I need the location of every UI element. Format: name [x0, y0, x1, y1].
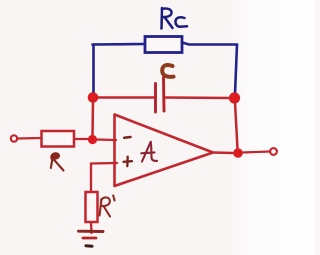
label A [141, 142, 157, 162]
input terminal [11, 135, 17, 141]
node right feedback junction [229, 92, 240, 103]
wire plus input to R' corner [91, 162, 117, 165]
wire left junction down to inverting input node [91, 101, 94, 136]
node left feedback junction [88, 92, 99, 103]
wire capacitor loop left [95, 96, 154, 99]
capacitor C [156, 78, 165, 113]
resistor R' [86, 192, 98, 222]
resistor Rc [145, 37, 182, 53]
wire right junction down to output node [235, 102, 238, 149]
wire blue feedback top left [93, 43, 146, 46]
wire capacitor loop right [166, 96, 231, 99]
label C [162, 65, 173, 77]
wire corner down to R' [90, 164, 92, 193]
wire output node to terminal [243, 152, 270, 153]
output terminal [270, 148, 277, 155]
wire blue feedback right vertical [235, 45, 237, 95]
node output junction [233, 148, 243, 158]
op-amp A [115, 115, 214, 187]
ground [79, 231, 104, 246]
wire blue feedback left vertical [92, 45, 95, 95]
label Rc [162, 8, 188, 29]
label R' [100, 196, 115, 217]
wire input terminal to R [18, 137, 42, 140]
pin plus [124, 157, 133, 167]
resistor R [42, 131, 75, 147]
pin minus [124, 136, 130, 139]
wire op-amp output to output node [213, 151, 233, 154]
wire R' to ground [90, 222, 93, 233]
node inverting input junction [88, 135, 97, 144]
wire R to inverting node [74, 138, 88, 140]
wire blue feedback top right [182, 43, 237, 45]
label R [51, 153, 64, 170]
wire inverting node to op-amp minus input [96, 138, 116, 141]
